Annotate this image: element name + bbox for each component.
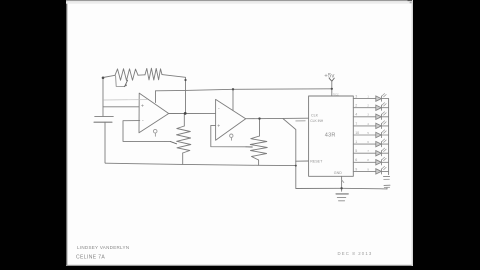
wire: cap node to U1 + input bbox=[103, 106, 139, 108]
svg-text:2: 2 bbox=[367, 104, 369, 108]
mid-wire resistor value marks bbox=[367, 95, 369, 172]
wire: reset pin stub bbox=[296, 160, 309, 162]
IC pin labels bbox=[310, 113, 342, 175]
node: U1 output bbox=[184, 112, 187, 115]
svg-text:LINDSEY VANDERLYN: LINDSEY VANDERLYN bbox=[77, 245, 129, 250]
svg-text:7: 7 bbox=[367, 149, 369, 153]
node: top left bbox=[102, 77, 105, 80]
wire R2 to feedback corner bbox=[162, 75, 186, 80]
R3 wiper arrowhead bbox=[171, 142, 177, 144]
op-amp U2 bbox=[216, 99, 246, 140]
svg-text:8: 8 bbox=[367, 158, 369, 162]
wire: output branch down to pot R4 bbox=[259, 119, 261, 136]
node: rail at +5V bbox=[331, 88, 333, 90]
LED row 4 bbox=[353, 121, 388, 129]
node: rail crossing bbox=[295, 165, 297, 167]
R4 wiper arrowhead bbox=[246, 146, 252, 148]
wire R1 to R2 bbox=[138, 74, 145, 76]
svg-text:DEC 8 2013: DEC 8 2013 bbox=[338, 251, 373, 256]
wire: +5V drop to Vcc bbox=[331, 81, 333, 96]
wire: R3 bottom to rail bbox=[182, 153, 184, 164]
svg-text:GND: GND bbox=[334, 171, 342, 175]
LED row 6 bbox=[353, 139, 388, 147]
svg-text:1: 1 bbox=[355, 140, 357, 144]
bottom rail bbox=[106, 163, 297, 165]
svg-text:1: 1 bbox=[367, 95, 369, 99]
svg-text:7: 7 bbox=[355, 122, 357, 126]
wire: left vertical from top node to capacitor bbox=[102, 78, 104, 117]
potentiometer R3 vertical zigzag bbox=[177, 126, 191, 153]
LED row 5 bbox=[353, 130, 388, 138]
svg-text:CLK INH: CLK INH bbox=[310, 119, 324, 123]
LED row 2 bbox=[353, 103, 388, 111]
+5V arrow bbox=[329, 78, 334, 81]
U1 inverting feedback loop to pot R3 wiper bbox=[123, 121, 171, 142]
svg-text:2: 2 bbox=[355, 104, 357, 108]
node: output to R4 bbox=[258, 117, 260, 119]
node: feedback corner bbox=[184, 79, 186, 81]
potentiometer R4 vertical zigzag bbox=[250, 136, 267, 160]
gnd arrow tick bbox=[342, 180, 344, 183]
wire: U1 output to U2 input bbox=[169, 112, 216, 114]
IC U3 body bbox=[309, 96, 354, 176]
paper corner mark top right bbox=[408, 0, 413, 1]
svg-text:5: 5 bbox=[355, 149, 357, 153]
svg-text:4: 4 bbox=[355, 113, 357, 117]
node: rail to U2 bbox=[232, 88, 234, 90]
svg-text:3: 3 bbox=[367, 113, 369, 117]
svg-text:CELINE 7A: CELINE 7A bbox=[76, 254, 105, 260]
riser from op-amp U1 top to rail bbox=[155, 91, 157, 103]
LED row 1 bbox=[353, 94, 388, 102]
LED row 9 bbox=[353, 166, 388, 174]
wire: feedback vertical down to output node bbox=[185, 80, 187, 113]
paper top edge shade bbox=[66, 0, 413, 1]
svg-text:6: 6 bbox=[355, 158, 357, 162]
svg-text:10: 10 bbox=[355, 131, 359, 135]
junction dots bbox=[102, 77, 343, 190]
LED row 8 bbox=[353, 157, 388, 165]
wire: tick up to LED return dashes bbox=[386, 187, 388, 189]
riser from op-amp U2 top to rail bbox=[232, 89, 234, 110]
LED rows bbox=[353, 94, 388, 175]
resistor R1 bbox=[115, 69, 138, 81]
svg-text:9: 9 bbox=[355, 167, 357, 171]
svg-text:RESET: RESET bbox=[310, 159, 323, 163]
LED row 3 bbox=[353, 112, 388, 120]
faint sketch input line bbox=[104, 99, 147, 101]
svg-text:+: + bbox=[217, 124, 220, 130]
pot wiper arrow on R1 bbox=[116, 76, 125, 87]
LED cathode bus bbox=[388, 99, 390, 175]
capacitor C1 bottom plate bbox=[94, 121, 112, 123]
op-amp pin marks bbox=[141, 104, 220, 130]
svg-text:3: 3 bbox=[355, 95, 357, 99]
wire: diagonal branch from U2 output down bbox=[283, 119, 296, 162]
wire: down across rail to bottom run bbox=[296, 161, 387, 189]
white paper bbox=[66, 0, 413, 266]
wire: IC gnd drop bbox=[341, 176, 343, 191]
pin numbers right side bbox=[355, 95, 359, 172]
LED row 7 bbox=[353, 148, 388, 156]
wire: capacitor down to bottom rail bbox=[104, 122, 107, 163]
svg-text:4: 4 bbox=[367, 122, 369, 126]
capacitor C1 top plate bbox=[95, 115, 114, 117]
wire: output node down to pot R3 bbox=[183, 113, 185, 126]
stub: clock inhibit pin bbox=[296, 120, 305, 122]
svg-text:+: + bbox=[141, 104, 144, 110]
wire: R4 bottom to rail bbox=[258, 160, 260, 165]
node: gnd junction bbox=[340, 187, 342, 189]
op-amp U1 bbox=[139, 93, 169, 133]
power rail across to +5V bbox=[156, 89, 332, 91]
resistor R2 bbox=[145, 68, 162, 80]
svg-text:Vcc: Vcc bbox=[333, 92, 339, 96]
U2 inverting loop to pot R4 wiper bbox=[211, 125, 246, 146]
svg-text:CLK: CLK bbox=[311, 113, 319, 117]
wire: top feedback run to resistor R1 bbox=[103, 75, 115, 77]
svg-text:6: 6 bbox=[367, 140, 369, 144]
svg-text:9: 9 bbox=[367, 167, 369, 171]
LED return dashes upper bbox=[384, 175, 390, 177]
op-amp U1 bottom pin circle bbox=[153, 129, 157, 133]
svg-text:43R: 43R bbox=[325, 132, 336, 138]
svg-text:+5v: +5v bbox=[324, 73, 334, 79]
svg-text:5: 5 bbox=[367, 131, 369, 135]
paper right edge shade bbox=[412, 0, 413, 266]
wire: U2 output run to IC clock pin bbox=[246, 117, 309, 120]
op-amp U2 bottom pin circle bbox=[230, 134, 233, 137]
ground symbol bbox=[336, 193, 348, 195]
LED return dashes lower bbox=[384, 184, 390, 186]
